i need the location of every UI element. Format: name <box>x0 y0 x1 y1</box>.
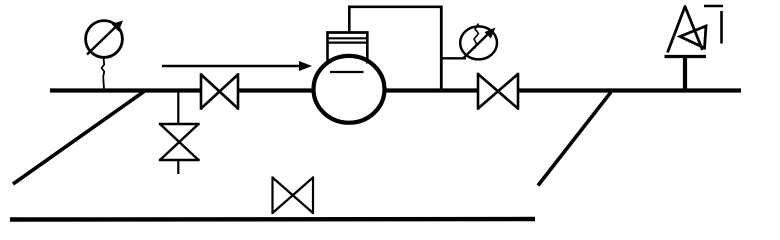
bypass valve V4 <box>273 176 314 214</box>
flow direction arrow <box>162 61 312 71</box>
left bypass diagonal wire <box>13 92 144 185</box>
drain valve V3 <box>159 124 200 160</box>
relief device nozzle triangle <box>680 26 706 48</box>
relief device base <box>665 55 707 58</box>
regulator actuator <box>326 33 368 64</box>
pressure gauge PI-1 <box>86 21 123 58</box>
drain stub wire <box>177 160 179 174</box>
control signal stem wire <box>348 7 351 33</box>
vent flag horizontal <box>704 5 723 7</box>
bottom bypass pipeline <box>10 217 535 222</box>
right bypass diagonal wire <box>538 92 611 186</box>
valve V2 on main line <box>478 73 518 110</box>
drain branch wire <box>177 92 179 124</box>
relief device cone <box>668 7 703 53</box>
gauge PI-2 branch wire <box>441 57 466 59</box>
pressure gauge PI-2 <box>460 24 497 60</box>
control signal top run wire <box>348 6 443 9</box>
main pipeline <box>50 88 741 92</box>
vent flag vertical <box>720 11 723 44</box>
control signal sensing drop wire <box>440 7 443 89</box>
regulator diaphragm plate <box>330 71 364 73</box>
pressure gauge PI-1 connector squiggle <box>102 58 105 89</box>
relief device stem wire <box>683 57 687 89</box>
valve V1 on main line <box>201 73 238 110</box>
regulator body U1 <box>314 56 385 123</box>
